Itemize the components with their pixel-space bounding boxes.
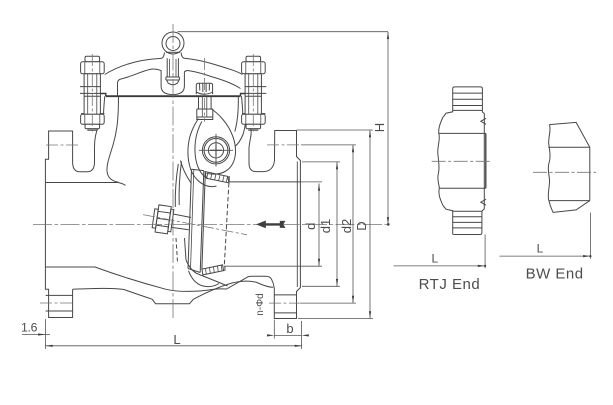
svg-text:d1: d1 — [318, 219, 333, 233]
svg-text:b: b — [286, 321, 293, 336]
svg-text:RTJ End: RTJ End — [419, 276, 481, 293]
svg-text:d2: d2 — [339, 219, 354, 233]
svg-text:D: D — [354, 221, 369, 230]
svg-text:n-Φd: n-Φd — [255, 293, 266, 315]
svg-text:1.6: 1.6 — [21, 321, 38, 335]
svg-text:L: L — [173, 332, 180, 347]
svg-text:BW End: BW End — [526, 265, 584, 282]
svg-text:H: H — [372, 123, 387, 132]
svg-text:d: d — [303, 223, 318, 230]
svg-text:L: L — [432, 252, 439, 266]
svg-text:L: L — [537, 242, 544, 256]
